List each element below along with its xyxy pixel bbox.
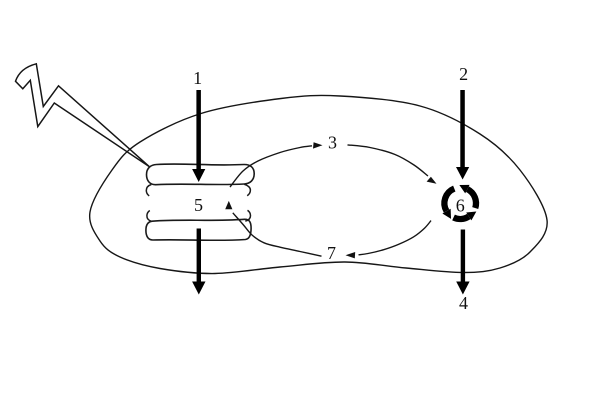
curve 3 (label to circle) bbox=[348, 145, 429, 176]
svg-text:6: 6 bbox=[456, 195, 465, 215]
svg-text:4: 4 bbox=[459, 293, 468, 313]
curve 7 (circle to label) bbox=[359, 221, 432, 255]
cycle symbol 6 bbox=[444, 189, 476, 219]
disc C left tip bbox=[147, 211, 152, 222]
curve 7 (label to granum) bbox=[233, 213, 322, 256]
svg-text:3: 3 bbox=[328, 133, 337, 153]
thick arrow 2 bbox=[456, 90, 469, 180]
thick arrow below granum bbox=[192, 229, 205, 295]
svg-text:2: 2 bbox=[459, 64, 468, 84]
disc C right tip bbox=[245, 210, 250, 221]
thick arrow 4 bbox=[456, 230, 469, 295]
svg-text:1: 1 bbox=[193, 68, 202, 88]
curve 7 arrowhead at granum bbox=[225, 201, 232, 209]
curve 3 arrowhead at circle bbox=[427, 177, 437, 184]
svg-text:7: 7 bbox=[327, 243, 336, 263]
curve 7 arrowhead at label bbox=[346, 252, 356, 258]
disc B left tip bbox=[146, 185, 151, 196]
lightning bolt (light symbol) bbox=[16, 64, 150, 167]
curve 3 arrowhead at label bbox=[313, 142, 323, 148]
thick arrow 1 bbox=[192, 90, 205, 182]
svg-text:5: 5 bbox=[194, 195, 203, 215]
disc B right tip bbox=[244, 184, 250, 195]
granum disc D (bottom, full) bbox=[146, 219, 251, 240]
granum disc A (top, full) bbox=[147, 164, 255, 185]
cell blob outline bbox=[90, 95, 548, 273]
curve 3 (granum to label) bbox=[230, 146, 312, 187]
